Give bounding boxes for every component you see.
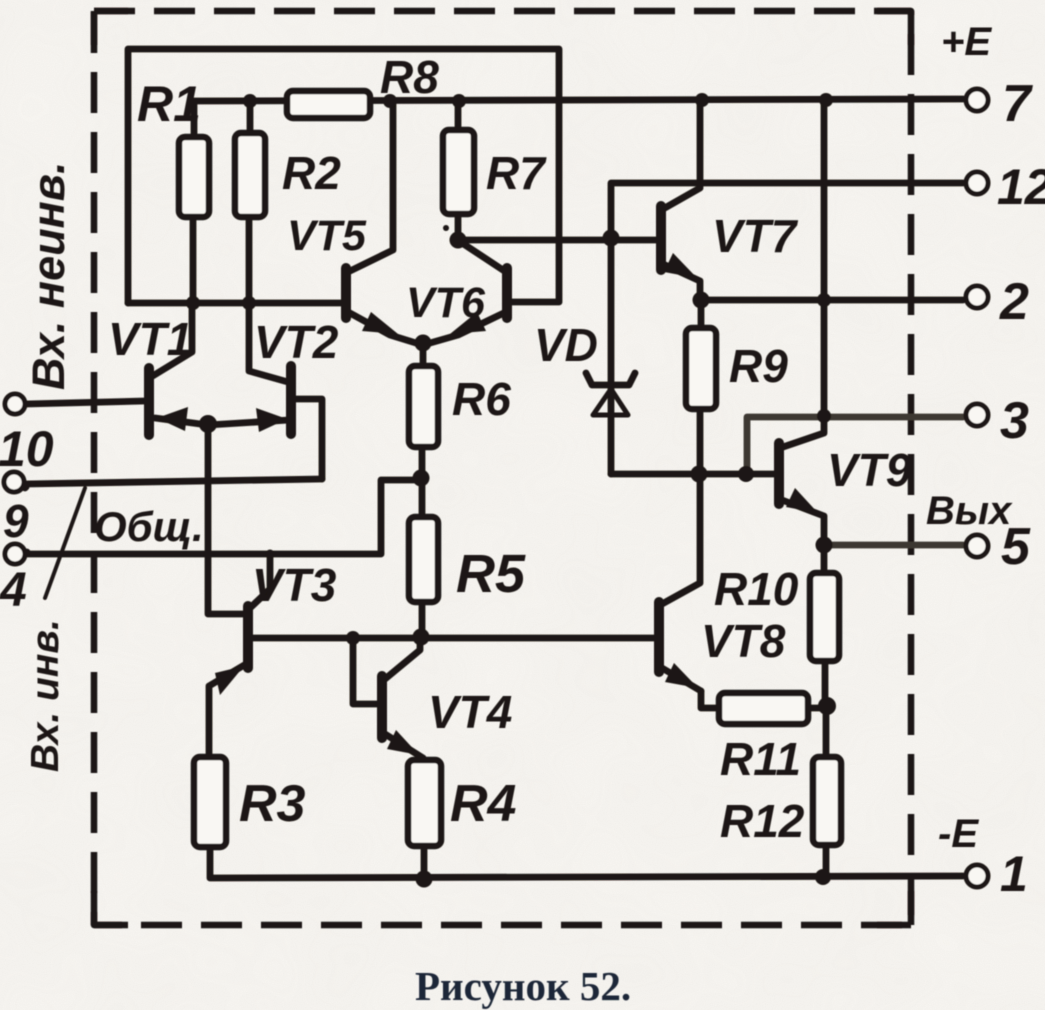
svg-text:VT2: VT2 (254, 316, 339, 368)
svg-text:R10: R10 (714, 563, 799, 615)
svg-text:R2: R2 (282, 147, 341, 199)
svg-text:Общ.: Общ. (94, 503, 204, 550)
svg-text:4: 4 (0, 564, 27, 617)
svg-text:VT4: VT4 (428, 686, 512, 738)
svg-text:VT9: VT9 (827, 444, 912, 496)
svg-text:R4: R4 (450, 775, 517, 833)
svg-text:9: 9 (3, 495, 29, 547)
svg-text:Вх. инв.: Вх. инв. (24, 619, 67, 772)
svg-text:10: 10 (0, 421, 54, 477)
svg-text:VT5: VT5 (287, 212, 367, 260)
svg-text:R12: R12 (720, 795, 805, 847)
svg-text:R8: R8 (380, 51, 439, 103)
svg-text:VT3: VT3 (252, 559, 337, 611)
svg-text:12: 12 (997, 159, 1045, 215)
svg-text:R3: R3 (239, 775, 306, 833)
svg-text:R7: R7 (486, 147, 547, 199)
svg-text:-E: -E (938, 812, 979, 856)
svg-text:R1: R1 (137, 76, 201, 132)
svg-text:VT8: VT8 (701, 615, 786, 667)
svg-text:2: 2 (999, 273, 1029, 331)
svg-text:7: 7 (1002, 75, 1033, 133)
svg-text:VT1: VT1 (108, 313, 192, 365)
svg-text:R11: R11 (720, 733, 801, 785)
svg-text:VT7: VT7 (712, 210, 799, 262)
svg-text:1: 1 (1000, 846, 1028, 902)
svg-text:R5: R5 (456, 544, 526, 604)
svg-text:R9: R9 (729, 340, 788, 392)
svg-text:R6: R6 (452, 373, 511, 425)
svg-text:+E: +E (941, 20, 992, 64)
svg-text:Рисунок 52.: Рисунок 52. (415, 963, 631, 1009)
svg-text:Вх. неинв.: Вх. неинв. (23, 162, 74, 391)
svg-text:VD: VD (534, 319, 598, 371)
svg-text:VT6: VT6 (406, 279, 486, 327)
svg-text:Вых: Вых (926, 489, 1013, 533)
svg-text:3: 3 (1000, 392, 1029, 450)
